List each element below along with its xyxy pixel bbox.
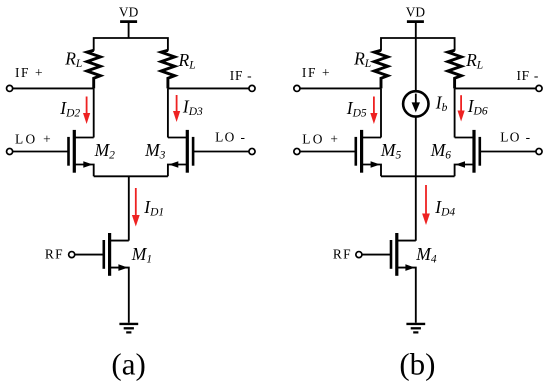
svg-text:LO -: LO - — [500, 129, 531, 144]
svg-text:IF -: IF - — [230, 68, 253, 83]
wire tail stem (a) — [128, 176, 130, 240]
wire M5 drain riser (b) — [380, 88, 382, 137]
terminal LO- (b) — [536, 148, 542, 154]
wire M3 drain — [168, 137, 187, 139]
transistor M2 source arrow — [83, 161, 93, 168]
transistor M2 body — [69, 130, 75, 173]
current arrow ID4 — [425, 185, 427, 215]
wire M5 drain — [362, 137, 381, 139]
terminal IF- (b) — [536, 85, 542, 91]
current source Ib — [403, 91, 428, 116]
svg-text:(a): (a) — [111, 347, 145, 382]
wire M6 drain — [455, 137, 474, 139]
transistor M4 source arrow — [405, 264, 415, 271]
transistor M5 body — [356, 130, 362, 173]
svg-text:ID3: ID3 — [182, 96, 203, 118]
wire M2 drain riser (a) — [93, 88, 95, 137]
svg-text:IF +: IF + — [15, 65, 44, 80]
wire M2 source — [74, 165, 93, 177]
svg-text:VD: VD — [119, 4, 139, 19]
terminal LO- (a) — [249, 148, 255, 154]
svg-text:LO -: LO - — [215, 129, 246, 144]
wire LO- (a) — [193, 151, 249, 153]
wire M5 source — [362, 165, 381, 177]
ground (a) — [119, 324, 138, 333]
wire VD stem (b) — [415, 23, 417, 91]
wire M3 source — [168, 165, 187, 177]
power VD bar (b) — [407, 20, 424, 23]
transistor M1 source arrow — [118, 264, 128, 271]
svg-text:ID1: ID1 — [143, 197, 164, 219]
svg-text:RL: RL — [64, 48, 82, 70]
wire top rail (b) — [381, 38, 455, 51]
wire IF- (a) — [168, 87, 249, 89]
svg-text:ID5: ID5 — [346, 98, 367, 120]
svg-text:M6: M6 — [430, 140, 452, 162]
resistor RL left (b) — [374, 50, 388, 88]
svg-text:RL: RL — [353, 48, 371, 70]
svg-text:M4: M4 — [415, 244, 437, 266]
wire top rail (a) — [94, 38, 168, 51]
svg-text:LO +: LO + — [302, 131, 340, 146]
wire tail rail (b) — [381, 175, 455, 177]
svg-text:RF: RF — [45, 247, 64, 262]
current arrow ID5 — [373, 97, 375, 115]
terminal LO+ (a) — [7, 148, 13, 154]
svg-text:(b): (b) — [399, 347, 435, 382]
wire Ib to tail (b) — [415, 117, 417, 240]
svg-text:M2: M2 — [94, 140, 116, 162]
svg-text:IF -: IF - — [517, 68, 540, 83]
wire M6 drain riser (b) — [454, 88, 456, 137]
wire IF+ (b) — [300, 87, 381, 89]
wire M6 source — [455, 165, 474, 177]
transistor M3 source arrow — [169, 161, 179, 168]
terminal IF+ (a) — [7, 85, 13, 91]
transistor M5 source arrow — [371, 161, 381, 168]
resistor RL right (b) — [448, 50, 462, 88]
current arrow ID3 — [176, 95, 178, 113]
transistor M6 source arrow — [456, 161, 466, 168]
current source Ib arrow — [415, 94, 417, 103]
terminal LO+ (b) — [294, 148, 300, 154]
wire M2 drain — [74, 137, 93, 139]
wire RF (b) — [362, 254, 391, 256]
terminal RF (b) — [356, 252, 362, 258]
resistor RL left (a) — [87, 50, 101, 88]
svg-text:ID4: ID4 — [434, 197, 455, 219]
terminal IF- (a) — [249, 85, 255, 91]
resistor RL right (a) — [161, 50, 175, 88]
svg-text:RL: RL — [465, 50, 483, 72]
wire RF (a) — [75, 254, 104, 256]
wire LO+ (a) — [13, 151, 68, 153]
power VD bar (a) — [120, 20, 137, 23]
svg-text:IF +: IF + — [302, 65, 331, 80]
svg-text:VD: VD — [406, 4, 426, 19]
current arrow ID1 — [135, 188, 137, 217]
svg-text:RL: RL — [178, 50, 196, 72]
wire IF+ (a) — [13, 87, 94, 89]
terminal IF+ (b) — [294, 85, 300, 91]
svg-text:ID2: ID2 — [59, 98, 80, 120]
transistor M4 body — [391, 233, 397, 276]
wire M4 source — [397, 268, 416, 323]
svg-text:LO +: LO + — [15, 131, 53, 146]
transistor M1 body — [104, 233, 110, 276]
svg-text:M5: M5 — [380, 140, 402, 162]
ground (b) — [406, 324, 425, 333]
current arrow ID2 — [86, 97, 88, 115]
svg-text:Ib: Ib — [435, 92, 448, 114]
wire IF- (b) — [455, 87, 536, 89]
svg-text:M1: M1 — [131, 244, 152, 266]
wire M1 source — [110, 268, 129, 323]
current arrow ID6 — [460, 95, 462, 112]
transistor M6 body — [474, 130, 480, 173]
terminal RF (a) — [69, 252, 75, 258]
svg-text:RF: RF — [333, 247, 352, 262]
transistor M3 body — [187, 130, 193, 173]
wire LO+ (b) — [300, 151, 356, 153]
wire tail rail (a) — [94, 175, 168, 177]
wire VD stem (a) — [128, 23, 130, 38]
svg-text:ID6: ID6 — [467, 96, 488, 118]
wire M3 drain riser (a) — [167, 88, 169, 137]
svg-text:M3: M3 — [144, 140, 166, 162]
wire M4 drain — [397, 240, 416, 242]
wire M1 drain — [110, 240, 129, 242]
wire LO- (b) — [480, 151, 536, 153]
